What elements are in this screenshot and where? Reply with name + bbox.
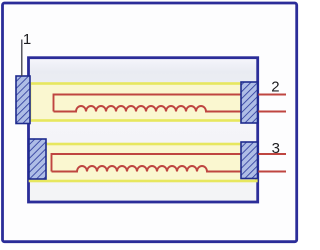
leader line for label 1 (21, 40, 23, 77)
svg-text:1: 1 (23, 31, 31, 48)
heating element R2 (bottom resistive coil + leads) (52, 154, 287, 172)
heater body (outer casing) (29, 58, 258, 202)
svg-text:3: 3 (272, 140, 280, 157)
insulation band 2 (bottom yellow channel) (30, 144, 256, 181)
terminal block top-right (hatched) (241, 82, 258, 123)
terminal block bottom-left (hatched) (29, 139, 46, 179)
heating element R1 (top resistive coil + leads) (54, 95, 287, 112)
insulation band 1 (top yellow channel) (30, 84, 256, 121)
terminal block bottom-right (hatched) (241, 142, 258, 179)
svg-text:2: 2 (271, 78, 279, 95)
terminal block 1 (top-left hatched, protruding) (16, 76, 30, 124)
